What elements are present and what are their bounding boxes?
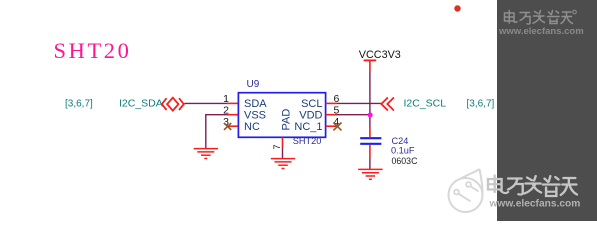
wire pin6 to I2C_SCL port bbox=[337, 102, 382, 104]
svg-text:VDD: VDD bbox=[299, 109, 322, 121]
wire pin1 (I2C_SDA to U9.1) bbox=[185, 102, 228, 104]
IC U9 body bbox=[238, 93, 325, 138]
watermark red logo dot bbox=[454, 5, 460, 11]
port I2C_SCL (double chevron) bbox=[381, 98, 394, 111]
watermark leaf logo emblem bbox=[449, 169, 483, 212]
ground symbol (pin2) bbox=[194, 149, 218, 159]
svg-text:SDA: SDA bbox=[244, 98, 267, 110]
svg-text:[3,6,7]: [3,6,7] bbox=[65, 99, 93, 110]
capacitor C24 pin top bbox=[369, 129, 371, 138]
svg-text:0603C: 0603C bbox=[392, 156, 419, 166]
pin 6 stub bbox=[326, 102, 337, 104]
ground symbol (C24) bbox=[358, 169, 382, 179]
pin 1 stub bbox=[227, 102, 238, 104]
port I2C_SDA (left chevron-diamond symbol) bbox=[162, 98, 184, 111]
svg-text:[3,6,7]: [3,6,7] bbox=[467, 99, 495, 110]
wire pin2 to ground bbox=[206, 115, 228, 149]
svg-text:SCL: SCL bbox=[301, 98, 322, 110]
svg-text:PAD: PAD bbox=[281, 109, 293, 131]
svg-text:www.elecfans.com: www.elecfans.com bbox=[489, 199, 581, 210]
pin 5 stub bbox=[326, 114, 337, 116]
svg-text:C24: C24 bbox=[392, 136, 409, 146]
wire cap to ground bbox=[369, 157, 371, 169]
svg-text:I2C_SCL: I2C_SCL bbox=[404, 98, 447, 110]
svg-text:SHT20: SHT20 bbox=[293, 136, 322, 146]
svg-text:NC: NC bbox=[244, 121, 260, 133]
watermark bottom chinese text bbox=[488, 176, 577, 197]
pin 4 stub bbox=[326, 125, 338, 127]
svg-text:VSS: VSS bbox=[244, 109, 266, 121]
wire pin5 to VCC rail bbox=[337, 114, 370, 116]
capacitor C24 pin bottom bbox=[369, 145, 371, 158]
wire VCC3V3 rail vertical bbox=[369, 72, 371, 129]
title SHT20 bbox=[54, 38, 132, 63]
no-connect X on pin 3 bbox=[224, 123, 231, 130]
no-connect X on pin 4 bbox=[333, 123, 341, 131]
capacitor C24 plates bbox=[360, 138, 381, 144]
svg-text:www.elecfans.com: www.elecfans.com bbox=[498, 26, 584, 37]
wire pin7 to ground bbox=[282, 148, 284, 158]
pin 3 stub bbox=[228, 125, 239, 127]
power symbol VCC3V3 bbox=[364, 60, 377, 71]
svg-text:7: 7 bbox=[272, 144, 282, 149]
watermark strip bbox=[497, 0, 597, 221]
svg-text:U9: U9 bbox=[247, 79, 260, 90]
pin 7 stub (bottom) bbox=[282, 137, 284, 148]
watermark top chinese text bbox=[505, 10, 577, 24]
svg-text:0.1uF: 0.1uF bbox=[391, 146, 415, 156]
ground symbol (pin7 PAD) bbox=[271, 159, 295, 169]
svg-text:SHT20: SHT20 bbox=[54, 38, 132, 63]
svg-text:I2C_SDA: I2C_SDA bbox=[119, 98, 163, 110]
svg-text:NC_1: NC_1 bbox=[294, 121, 322, 133]
pin 2 stub bbox=[227, 114, 238, 116]
junction dot bbox=[368, 113, 373, 118]
svg-text:1: 1 bbox=[223, 93, 229, 105]
svg-text:VCC3V3: VCC3V3 bbox=[359, 49, 401, 61]
